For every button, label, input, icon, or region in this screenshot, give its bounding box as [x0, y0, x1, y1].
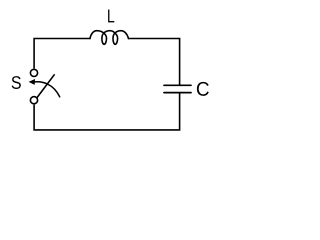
- capacitor C bottom plate: [164, 92, 191, 94]
- inductor L coil (3 arches, 2 loops): [90, 31, 129, 45]
- wire: inductor left lead, top-left corner, down to switch top contact: [34, 39, 90, 68]
- value label L (inductor): [108, 10, 114, 23]
- value label C (capacitor): [197, 82, 209, 96]
- switch S1 blade arm: [37, 75, 54, 98]
- value label S (switch): [12, 76, 21, 89]
- wire: from capacitor top plate up, top-right corner, to inductor right lead: [129, 39, 180, 85]
- switch S1 top contact circle: [30, 69, 37, 76]
- switch S1 closing-motion arc: [34, 82, 60, 97]
- switch S1 closing-motion arrowhead: [29, 79, 35, 85]
- wire: from switch bottom contact down, bottom run, up to capacitor bottom plate: [34, 93, 180, 129]
- switch S1 bottom contact circle: [30, 97, 37, 104]
- capacitor C top plate: [164, 84, 191, 86]
